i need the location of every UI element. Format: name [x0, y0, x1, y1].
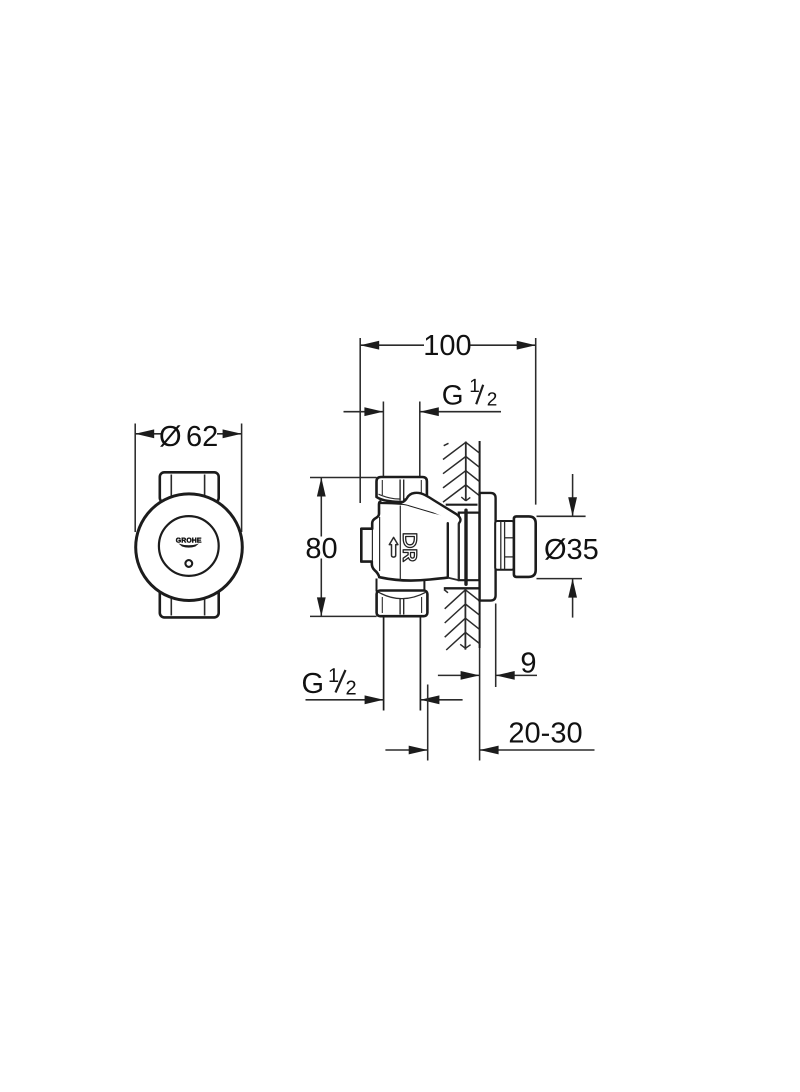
svg-text:62: 62	[186, 421, 218, 453]
dim D35 bottom tick and arrow	[537, 578, 583, 580]
valve body to cylinder bottom step	[448, 578, 459, 581]
seal ring bar at wall	[464, 510, 467, 584]
dim D62 dimension line and arrows	[135, 433, 162, 435]
dim 20-30 dimension line and arrows	[385, 749, 427, 751]
svg-text:GROHE: GROHE	[176, 538, 202, 545]
valve body sloped shoulder band	[401, 493, 461, 523]
valve body inner seam left	[379, 517, 381, 571]
dim 80 dimension line and arrows	[320, 478, 322, 537]
dim 9 dimension line and arrows	[438, 674, 480, 676]
dim 80 extension lines	[310, 477, 377, 479]
shoulder wedge lower edge	[401, 504, 459, 520]
svg-text:Ø: Ø	[159, 421, 182, 453]
dim 100 extension line left	[359, 338, 361, 503]
body right edge	[447, 523, 449, 577]
body left outline with test cap	[361, 502, 380, 578]
dim D35 top tick and arrow	[537, 515, 586, 517]
knob neck rings	[495, 521, 514, 570]
svg-text:1: 1	[469, 376, 480, 397]
front view inner circle	[159, 516, 219, 576]
front view escutcheon outer circle	[136, 494, 243, 601]
valve body main casting	[361, 503, 458, 580]
body bottom edge	[379, 577, 448, 580]
supply pipe below valve	[383, 616, 385, 710]
dim 100 extension line right	[535, 338, 537, 505]
DR marking rotated (drawn as paths)	[403, 534, 417, 562]
wall lower section top border	[444, 587, 480, 589]
wall escutcheon plate	[480, 493, 496, 601]
plate extension line	[495, 604, 497, 688]
valve body spindle housing cylinder through wall	[459, 513, 480, 581]
svg-text:2: 2	[487, 390, 498, 411]
svg-text:20-30: 20-30	[508, 717, 582, 749]
valve body center seam	[399, 506, 401, 581]
svg-text:G: G	[302, 668, 325, 700]
valve bottom hex nut	[377, 591, 428, 617]
wall hatching lower section	[444, 588, 480, 650]
svg-text:9: 9	[520, 648, 536, 680]
dim G1/2 bottom dimension line and arrows	[306, 699, 384, 701]
body top edge	[379, 502, 401, 505]
push knob	[514, 516, 536, 577]
wall surface extension line below	[479, 648, 481, 761]
front view bottom hex nut	[160, 588, 219, 617]
dim D62 extension line left	[134, 424, 136, 533]
flow direction arrow marking	[389, 537, 398, 557]
svg-text:1: 1	[328, 665, 339, 687]
front view top hex nut	[160, 472, 219, 502]
bottom outlet neck	[376, 579, 378, 592]
svg-text:2: 2	[346, 678, 357, 700]
GROHE laurel emblem	[178, 544, 199, 548]
cylinder step edge	[458, 522, 460, 581]
dim 100 dimension line and arrows	[360, 344, 424, 346]
valve top hex nut	[377, 477, 427, 502]
svg-text:100: 100	[423, 330, 471, 362]
wall hatching upper section	[443, 442, 480, 505]
wall upper section bottom border	[446, 504, 478, 506]
svg-text:Ø35: Ø35	[544, 534, 599, 566]
dim D62 extension line right	[241, 424, 243, 533]
front view small pilot hole	[185, 560, 192, 567]
wall right edge / finished surface line	[479, 441, 481, 648]
valve bottom nut chamfer arcs	[379, 592, 426, 598]
dim 20-30 extension line	[427, 685, 429, 761]
valve top nut facet chamfer arcs	[379, 494, 426, 499]
dim G1/2 top extension lines	[382, 402, 384, 477]
svg-text:G: G	[442, 379, 464, 410]
dim G1/2 top dimension line and arrows	[344, 411, 384, 413]
svg-text:80: 80	[305, 533, 337, 565]
